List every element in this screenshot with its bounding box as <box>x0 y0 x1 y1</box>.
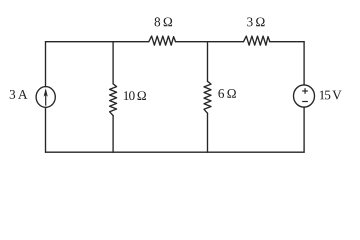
wire branch node B upper <box>112 42 114 84</box>
voltage source V1 plus sign <box>302 88 308 94</box>
label 3 ohm <box>247 17 264 26</box>
wire left lower <box>45 107 47 152</box>
label 3 A <box>10 90 28 99</box>
wire top-right segment <box>270 41 304 43</box>
resistor R 8ohm zigzag <box>149 36 176 45</box>
current source I1 arrow <box>45 91 47 106</box>
resistor R 6ohm zigzag <box>204 81 211 113</box>
wire top-middle segment <box>176 41 244 43</box>
wire top-left segment <box>46 41 149 43</box>
wire right upper <box>303 42 305 85</box>
wire branch node C upper <box>207 42 209 82</box>
wire branch node C lower <box>207 113 209 152</box>
wire branch node B lower <box>112 116 114 153</box>
wire left upper <box>45 42 47 87</box>
current source I1 circle <box>36 87 55 108</box>
voltage source V1 circle <box>294 85 315 107</box>
label 15 V <box>320 91 342 100</box>
resistor R 10ohm zigzag <box>110 84 117 116</box>
wire right lower <box>303 107 305 152</box>
voltage source V1 minus sign <box>302 101 308 103</box>
label 6 ohm <box>218 89 235 98</box>
label 8 ohm <box>155 17 173 26</box>
resistor R 3ohm zigzag <box>244 36 270 45</box>
label 10 ohm <box>124 91 146 100</box>
wire bottom <box>46 151 305 153</box>
